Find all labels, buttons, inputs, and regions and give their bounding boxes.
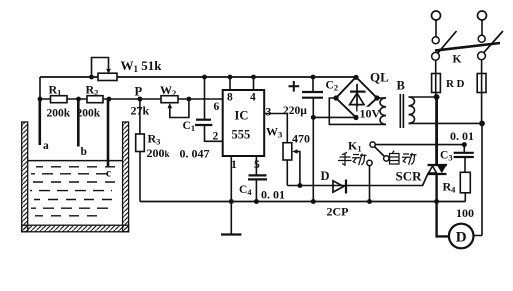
- svg-text:4: 4: [250, 92, 256, 104]
- svg-text:QL: QL: [370, 70, 389, 85]
- resistor R1: [51, 96, 68, 103]
- capacitor C1 0.047: [195, 77, 223, 141]
- svg-text:10V: 10V: [360, 107, 381, 121]
- svg-text:a: a: [43, 140, 49, 152]
- junction rail at pin 1: [229, 199, 234, 204]
- fuse RD left: [432, 74, 441, 93]
- junction C2 line at bridge minus: [311, 115, 316, 120]
- value 10V (transformer secondary): [358, 107, 384, 120]
- svg-text:IC: IC: [235, 109, 249, 123]
- junction right pole at primary bottom: [479, 121, 485, 127]
- capacitor C3 0.01 snubber: [454, 145, 474, 173]
- junction rail at C4: [254, 199, 259, 204]
- svg-text:220µ: 220µ: [283, 105, 307, 117]
- junction on top rail at W1 wiper: [89, 75, 94, 80]
- svg-text:6: 6: [214, 101, 220, 113]
- junction gate wire at W3 wiper: [297, 183, 302, 188]
- svg-text:b: b: [81, 146, 87, 158]
- svg-text:RD: RD: [446, 78, 467, 90]
- terminal right: [478, 11, 487, 20]
- wire: +V top rail: [40, 76, 356, 78]
- label auto glyphs: [390, 151, 417, 165]
- tank bottom wall: [22, 225, 129, 232]
- junction bridge top corner: [353, 75, 358, 80]
- electrode b: [77, 99, 80, 147]
- junction on top rail at pin 4 riser: [251, 75, 256, 80]
- junction row at electrode c: [107, 97, 112, 102]
- wire: node P down to R3: [139, 99, 141, 134]
- svg-text:200k: 200k: [77, 108, 101, 120]
- junction on top rail at pin 8 riser: [228, 75, 233, 80]
- wire: bridge AC wrap to secondary bottom: [329, 98, 386, 124]
- junction on top rail at C1 lead: [202, 75, 207, 80]
- wire: right terminal to switch: [481, 20, 483, 35]
- electrode c: [107, 99, 110, 168]
- junction on top rail at C2 lead: [311, 75, 316, 80]
- potentiometer W3 470: [283, 143, 300, 186]
- node P junction: [137, 97, 142, 102]
- IC U1 555 timer box: [223, 90, 265, 156]
- wire: SCR anode line (thick): [435, 97, 438, 165]
- wire: gate wire from W3/D to SCR: [287, 185, 423, 187]
- svg-text:8: 8: [227, 92, 233, 104]
- potentiometer W2: [161, 96, 189, 118]
- wire: sensor row (pin 6 net): [40, 98, 223, 100]
- transformer B core: [400, 94, 403, 128]
- bridge rectifier QL: [336, 77, 377, 118]
- label manual (hand) glyphs: [338, 152, 367, 165]
- wire: K1 manual contact to ground rail: [369, 166, 371, 202]
- wire: left switch to fuse: [435, 60, 437, 97]
- junction row at electrode a: [38, 97, 43, 102]
- motor D: [449, 224, 474, 249]
- transformer B primary winding: [409, 97, 483, 123]
- switch K1: [367, 142, 389, 166]
- svg-text:0. 047: 0. 047: [180, 147, 210, 161]
- ground symbol: [221, 202, 242, 235]
- wire: SCR cathode line to motor (thick): [437, 174, 449, 236]
- transformer B secondary winding: [377, 98, 386, 124]
- junction bridge left corner: [333, 95, 338, 100]
- svg-text:D: D: [456, 230, 467, 246]
- water surface line: [28, 160, 123, 162]
- svg-text:D: D: [321, 169, 330, 183]
- electrode a: [38, 99, 41, 145]
- capacitor C4 0.01: [248, 175, 267, 201]
- SCR (triac symbol): [423, 165, 448, 186]
- svg-text:555: 555: [232, 128, 251, 142]
- svg-text:W1 51k: W1 51k: [121, 58, 163, 74]
- svg-text:0. 01: 0. 01: [261, 188, 285, 202]
- fuse RD right: [477, 74, 486, 93]
- junction snubber top: [462, 142, 467, 147]
- wire: pin 5 to C4: [255, 156, 257, 175]
- wire: motor to right pole: [474, 123, 483, 235]
- svg-text:SCR: SCR: [396, 169, 423, 184]
- wire: R4 to cathode junction: [464, 193, 466, 202]
- capacitor C2 220u electrolytic: [289, 77, 324, 202]
- svg-text:B: B: [397, 79, 405, 93]
- tank left wall: [22, 122, 28, 232]
- junction bridge bottom corner: [353, 115, 358, 120]
- svg-text:3: 3: [266, 107, 272, 119]
- svg-text:470: 470: [292, 132, 310, 146]
- wire: right switch to fuse: [481, 60, 483, 124]
- junction bridge right corner: [374, 95, 379, 100]
- resistor R3: [136, 134, 145, 152]
- svg-text:c: c: [106, 168, 111, 180]
- svg-text:100: 100: [456, 206, 474, 220]
- svg-text:P: P: [135, 85, 143, 99]
- junction rail at SCR cathode line: [434, 199, 439, 204]
- junction rail at C2 lead: [311, 199, 316, 204]
- svg-text:200k: 200k: [147, 146, 170, 160]
- wire: pin 1 to ground rail: [230, 156, 232, 202]
- resistor R2: [87, 96, 103, 103]
- wire: ground bottom rail: [140, 201, 465, 203]
- wire: left terminal to switch: [435, 20, 437, 37]
- svg-text:K: K: [453, 54, 462, 66]
- junction row at W2 wiper return: [187, 97, 192, 102]
- junction left pole at primary: [434, 94, 440, 100]
- wire: K1 pivot to snubber C3: [375, 144, 464, 146]
- junction rail at K1 manual contact: [367, 199, 372, 204]
- potentiometer W1 51k: [92, 58, 118, 81]
- svg-text:200k: 200k: [47, 108, 71, 120]
- wire: pin 4 riser: [253, 77, 255, 90]
- terminal left: [432, 11, 441, 20]
- wire: pin 8 riser: [229, 77, 231, 90]
- svg-text:0. 01: 0. 01: [450, 129, 474, 143]
- wire: bridge minus to C2 line: [313, 116, 356, 118]
- wire: pin 3 to W3: [264, 114, 287, 143]
- diode D 2CP: [333, 180, 346, 194]
- wire: R3 to ground rail: [139, 152, 141, 202]
- resistor R4: [460, 172, 470, 193]
- wire: left drop from rail to electrode a: [39, 77, 41, 99]
- svg-text:2CP: 2CP: [327, 205, 349, 219]
- switch K (DPST): [432, 31, 503, 60]
- svg-text:2: 2: [213, 131, 219, 143]
- water dashes: [30, 167, 118, 216]
- junction row at electrode b: [76, 97, 81, 102]
- tank right wall: [123, 122, 129, 232]
